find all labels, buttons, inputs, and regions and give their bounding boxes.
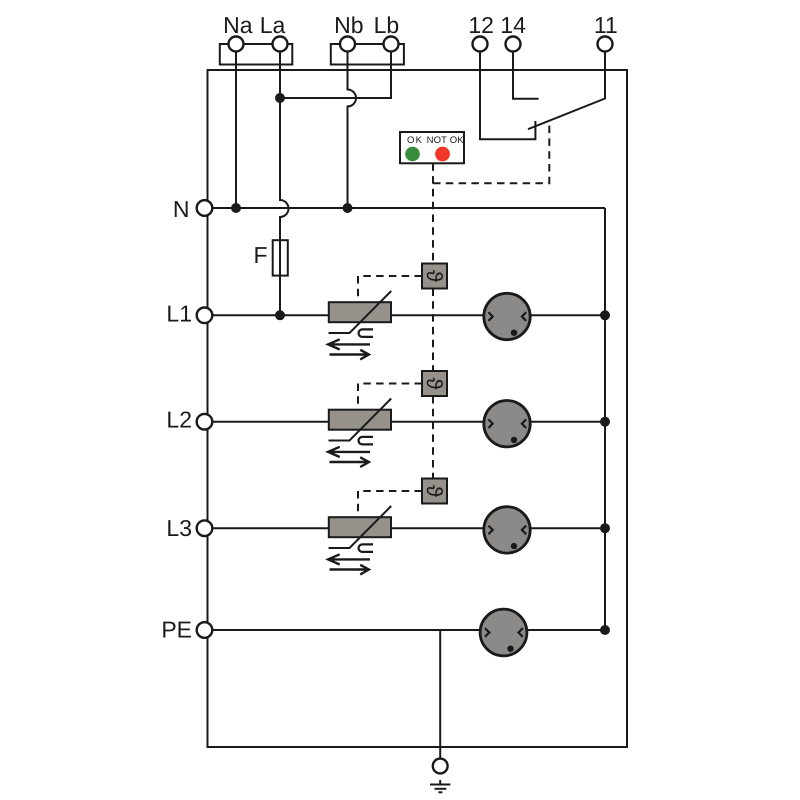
dashed link LED chain vertical (432, 163, 434, 478)
spark gap L1 (484, 293, 530, 339)
wire terminal 14 stub (513, 52, 539, 99)
thermal disconnect box theta3 (422, 479, 447, 504)
svg-text:Na: Na (223, 12, 253, 38)
svg-text:ϑ: ϑ (422, 377, 447, 389)
terminal bracket Nb/Lb (331, 44, 404, 65)
dashed link to remote contact (433, 121, 549, 183)
varistor row L3 (328, 506, 391, 575)
spark gap L3 (484, 507, 530, 553)
dashed link theta2 to varistor2 (358, 384, 422, 410)
wire La vertical with hop over N wire (280, 52, 289, 316)
junction dot bus/L1 (600, 310, 610, 320)
wire Na vertical (235, 52, 237, 209)
svg-text:14: 14 (500, 12, 526, 38)
svg-text:11: 11 (594, 12, 618, 38)
wire link La to Lb (280, 97, 391, 99)
terminal circle Lb (384, 37, 399, 52)
LED status box (400, 132, 464, 163)
dashed link theta1 to varistor1 (358, 276, 422, 302)
svg-text:La: La (260, 12, 286, 38)
wire PE to ground (439, 630, 441, 759)
junction dot bus/L2 (600, 417, 610, 427)
svg-text:Nb: Nb (334, 12, 363, 38)
fuse F (273, 240, 288, 275)
terminal circle PE (197, 622, 213, 638)
svg-text:Lb: Lb (374, 12, 400, 38)
terminal circle N (197, 200, 213, 216)
terminal circle Na (229, 37, 244, 52)
varistor row L2 (328, 399, 391, 468)
svg-text:OK: OK (407, 135, 423, 146)
svg-text:L3: L3 (166, 515, 192, 541)
terminal circle Nb (340, 37, 355, 52)
terminal circle La (273, 37, 288, 52)
svg-text:NOT OK: NOT OK (427, 135, 465, 146)
terminal circle 11 (598, 37, 613, 52)
thermal disconnect box theta1 (422, 264, 447, 289)
LED red NOT OK (435, 147, 450, 162)
junction dot bus/L3 (600, 523, 610, 533)
spark gap PE (480, 609, 527, 656)
svg-text:12: 12 (468, 12, 494, 38)
terminal circle 12 (473, 37, 488, 52)
wire L2 horizontal (212, 421, 605, 423)
dashed link theta3 to varistor3 (358, 491, 422, 517)
terminal circle 14 (506, 37, 521, 52)
svg-text:L1: L1 (166, 301, 192, 327)
wire right bus vertical (604, 208, 606, 630)
junction dot Nb/N (343, 203, 353, 213)
junction dot La/L1 (275, 310, 285, 320)
ground terminal circle (433, 759, 448, 774)
wire terminal 12 to contact (480, 52, 535, 140)
wire PE horizontal (212, 629, 605, 631)
wire N horizontal (212, 207, 605, 209)
wire Nb vertical with hop over link (348, 52, 357, 209)
junction dot bus/PE (600, 625, 610, 635)
ground symbol (430, 780, 450, 792)
junction dot Na/N (231, 203, 241, 213)
wire Lb vertical (390, 52, 392, 100)
varistor row L1 (328, 291, 391, 360)
thermal disconnect box theta2 (422, 371, 447, 396)
spark gap L2 (484, 401, 530, 447)
svg-text:F: F (253, 242, 267, 268)
device outline box (208, 70, 628, 747)
svg-text:ϑ: ϑ (422, 270, 447, 282)
svg-text:L2: L2 (166, 407, 192, 433)
terminal bracket Na/La (220, 44, 292, 65)
terminal circle L1 (197, 308, 213, 324)
wire terminal 11 with switch blade (528, 52, 605, 130)
LED green OK (405, 147, 420, 162)
junction dot La/link (275, 93, 285, 103)
svg-text:PE: PE (161, 617, 192, 643)
svg-text:N: N (173, 196, 190, 222)
terminal circle L3 (197, 520, 213, 536)
svg-text:ϑ: ϑ (422, 485, 447, 497)
wire L1 horizontal (212, 314, 605, 316)
terminal circle L2 (197, 414, 213, 430)
wire L3 horizontal (212, 527, 605, 529)
